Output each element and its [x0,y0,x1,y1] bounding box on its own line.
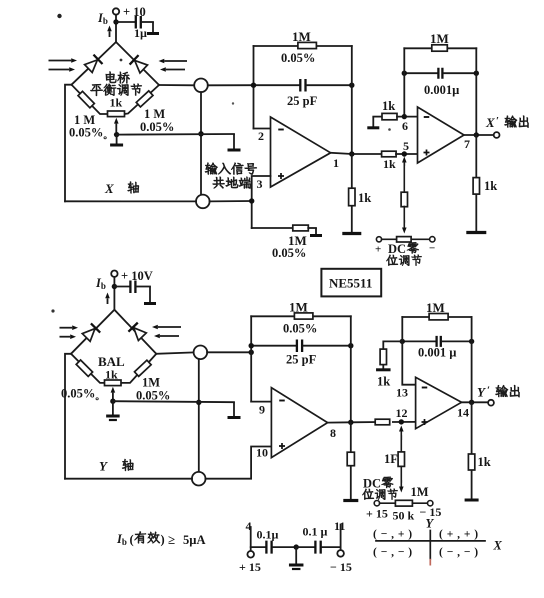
terminal +15 [247,551,254,558]
svg-text:NE5511: NE5511 [329,276,372,291]
svg-text:1: 1 [333,156,339,170]
resistor R3 1k series [382,151,397,157]
svg-text:( + , + ): ( + , + ) [439,529,479,541]
quadrant chart Y axis [429,531,431,559]
wire pin11 vertical [340,525,342,551]
svg-text:1k: 1k [358,191,371,205]
svg-text:( − , + ): ( − , + ) [373,529,413,541]
node op3 output [348,420,353,425]
op-amp U1b [418,107,465,163]
resistor bridge2 lower-left [76,360,92,376]
svg-text:( − , − ): ( − , − ) [373,547,413,559]
resistor R5 1M feedback op2 [404,47,476,49]
bridge B2 diamond wires [71,310,156,354]
wire common to ground stub [117,133,234,136]
svg-text:( − , − ): ( − , − ) [439,547,479,559]
resistor R1 1M 0.05% feedback op1 [254,45,352,47]
resistor R13 1k pulldown Y out [471,402,473,454]
svg-text:0.05%: 0.05% [281,51,315,65]
quadrant chart Y axis red tip [429,559,431,566]
label dianqiao bridge [106,72,116,83]
wire J3 to node [207,351,251,353]
node pin3 X axis junction [249,198,254,203]
svg-text:+ 15: + 15 [366,507,388,521]
terminal +10V supply bottom [111,271,117,277]
svg-text:9: 9 [259,403,265,417]
terminal Y output [488,400,494,406]
svg-text:2: 2 [258,129,264,143]
node decoupling ground [294,544,299,549]
wire J3 down to common2 [198,359,200,472]
svg-text:X: X [485,115,495,130]
svg-text:+ 10V: + 10V [121,269,153,283]
light arrows left D1 [49,60,72,62]
wire J1 down to common junction [200,92,202,195]
svg-text:6: 6 [402,119,408,133]
svg-text:1k: 1k [110,96,123,110]
node cap rail right [349,83,354,88]
wire feedback verticals op2 [403,48,405,116]
wire feedback left vertical op1 [253,46,255,129]
svg-text:5µA: 5µA [183,533,205,547]
svg-text:+: + [375,244,381,256]
svg-text:− 15: − 15 [330,560,352,574]
wire feedback right vertical op3 [350,316,352,422]
svg-text:Y: Y [99,459,108,474]
photodiode D4 [128,323,147,342]
op-amp U1c [271,388,327,458]
scan speck 3 [388,128,391,131]
svg-text:1M: 1M [292,29,311,44]
ground below BAL pot [112,403,114,416]
svg-text:1µ: 1µ [134,26,147,40]
wire J4 to pin10 corner [205,447,271,479]
light arrows left D3 [60,327,73,329]
svg-text:′: ′ [496,115,499,127]
terminal -15 [337,550,344,557]
light arrows right D4 [158,326,181,328]
potentiometer DC zero X [376,237,381,242]
capacitor C8 0.1u [296,546,314,548]
resistor R10 1k pulldown op3 out [350,422,352,452]
jack J2 X axis [196,195,210,209]
capacitor C6 0.001u feedback op4 [402,340,435,342]
scan speck 4 [232,102,234,104]
wire pin4 vertical [250,527,252,551]
resistor R12 1k at pin13 branch [383,341,402,349]
svg-text:1 M: 1 M [144,107,165,121]
svg-text:DC: DC [388,242,406,256]
wire op3 output [328,421,379,424]
wire feedback right vertical op1 [351,46,353,154]
node cap rail left [251,83,256,88]
resistor R11 1M feedback op4 [402,316,471,318]
terminal X output [494,132,500,138]
wire pin3 into op1 [252,176,271,228]
wire J2 to pin3 node [210,200,252,202]
resistor bridge2 lower-right [134,360,151,376]
bridge B1 diamond wires [72,42,160,85]
IC label box NE5511 [321,269,381,297]
svg-text:25 pF: 25 pF [287,94,318,108]
wire supply to bridge2 [113,277,115,310]
svg-text:1k: 1k [382,99,395,113]
svg-text:1M: 1M [142,376,160,390]
node bridge wiper ground junction [114,132,119,137]
capacitor C2 bottom [114,286,129,288]
svg-text:1k: 1k [484,179,497,193]
svg-text:0.001 µ: 0.001 µ [418,346,456,360]
ground below balance pot [116,136,118,144]
node pin12 [399,419,404,424]
wire pin2 into op1 [254,128,271,130]
light arrows right D2 [164,60,187,62]
resistor R2 1M 0.05% to ground [252,227,293,229]
svg-text:0.05%: 0.05% [272,246,306,260]
node common2 junction [196,400,201,405]
wire supply to bridge top [115,15,117,42]
terminal +10 supply top [113,8,119,14]
scan speck 2 [120,59,123,62]
svg-text:1M: 1M [426,300,445,315]
label balance adjust [90,84,102,96]
svg-text:X: X [104,181,114,196]
wire bridge2 right vertex to jack J3 [156,352,193,353]
jack J3 signal input Y [194,346,208,360]
node Ib junction bottom [112,284,117,289]
wire feedback left vertical op3 [250,316,252,401]
svg-text:25 pF: 25 pF [286,353,317,367]
node pin5 [402,151,407,156]
svg-text:′: ′ [487,385,490,397]
svg-text:−: − [429,243,435,255]
svg-text:50 k: 50 k [393,509,415,523]
capacitor C3 25pF feedback op1 [254,84,300,86]
DC zero chain Y: arrow up [400,432,402,441]
arrow down to pot Y [400,467,402,483]
wire X axis left [65,200,196,202]
wiper arrow of balance pot [115,124,117,132]
scan speck 1 [57,14,61,18]
resistor bridge lower-left 1M [78,91,94,108]
svg-text:1k: 1k [377,375,390,389]
ground common2 [233,402,235,416]
svg-text:0.05%: 0.05% [283,322,317,336]
photodiode D1 [84,55,103,74]
node Ib junction top [113,19,118,24]
resistor trim series Y 1F [398,452,404,467]
jack J1 signal input [194,79,208,93]
svg-text:14: 14 [457,406,469,420]
svg-text:): ) [161,533,165,547]
arrow Ib current up [109,31,111,37]
node op1 output [349,151,354,156]
svg-text:≥: ≥ [168,532,175,547]
wire feedback verticals op4 [402,317,415,385]
wire op4 output to terminal [462,401,488,403]
wire op1 output [331,153,382,154]
resistor R9 1k series Y [375,419,390,425]
svg-text:0.1µ: 0.1µ [257,528,279,542]
wire Y axis left [65,478,192,480]
svg-text:Y: Y [477,385,486,400]
node BAL wiper junction [110,399,115,404]
svg-text:+ 10: + 10 [123,5,146,19]
svg-text:1k: 1k [478,455,491,469]
svg-text:1M: 1M [430,31,449,46]
svg-text:0.1 µ: 0.1 µ [303,525,328,539]
svg-text:3: 3 [257,177,263,191]
wire down to trim resistor Y [400,436,402,452]
resistor R7 1k pulldown X out [475,135,477,178]
wire J1 to summing node [208,84,254,86]
svg-text:7: 7 [464,137,470,151]
wire common2 to ground stub [113,401,234,402]
svg-text:1M: 1M [289,300,308,315]
svg-text:11: 11 [334,519,345,533]
svg-text:13: 13 [396,386,408,400]
svg-text:DC: DC [363,477,381,491]
potentiometer bridge balance 1k [108,111,125,117]
op-amp U1d [416,377,462,428]
wiper arrow BAL pot [112,393,114,400]
resistor R6 1k at pin6 [372,117,374,127]
resistor R4 1k pulldown op1 out [351,154,353,189]
svg-text:1F: 1F [384,452,398,466]
capacitor C4 0.001u feedback op2 [404,72,437,74]
svg-text:1M: 1M [411,485,429,499]
capacitor C5 25pF feedback op3 [251,345,295,347]
resistor trim series X [401,192,407,207]
scan speck 5 [51,309,54,312]
potentiometer BAL 1k [105,380,122,386]
wire op2 output to terminal [464,134,493,136]
ground decoupling [295,547,297,564]
svg-text:5: 5 [403,139,409,153]
svg-text:1k: 1k [105,368,118,382]
label input signal common [205,163,217,175]
wire bridge right vertex to jack J1 [159,84,194,86]
jack J4 Y axis [192,472,206,486]
photodiode D3 [82,323,101,342]
node common junction [198,131,203,136]
ground input common [233,134,235,149]
svg-text:1k: 1k [383,157,396,171]
resistor bridge lower-right 1M [136,91,153,107]
svg-text:0.001µ: 0.001µ [424,83,459,97]
wire bridge left stub [65,85,72,202]
photodiode D2 [130,55,149,74]
svg-text:X: X [493,539,503,553]
arrow down to pot X [403,207,405,223]
capacitor C1 1u [116,21,134,23]
svg-text:12: 12 [396,406,408,420]
ground at C1 [152,22,154,33]
svg-text:0.05%: 0.05% [136,389,170,403]
wire down to trim resistor [403,162,405,193]
capacitor C7 0.1u [251,546,265,548]
wire bridge2 left stub [65,354,71,479]
node bridge2 output [249,350,254,355]
quadrant chart X axis [376,540,485,542]
svg-text:(: ( [130,533,134,547]
DC zero chain X: arrow up [403,163,405,167]
svg-text:0.05%: 0.05% [140,120,174,134]
op-amp U1a [271,117,331,187]
ground at C2 [149,287,151,303]
svg-text:+ 15: + 15 [239,560,261,574]
svg-text:8: 8 [330,426,336,440]
resistor R8 1M 0.05% feedback op3 [251,315,351,317]
arrow Ib current up bottom [107,298,109,304]
svg-text:10: 10 [256,446,268,460]
potentiometer DC zero Y 50k [374,501,379,506]
wire pin9 into op3 [251,401,271,403]
